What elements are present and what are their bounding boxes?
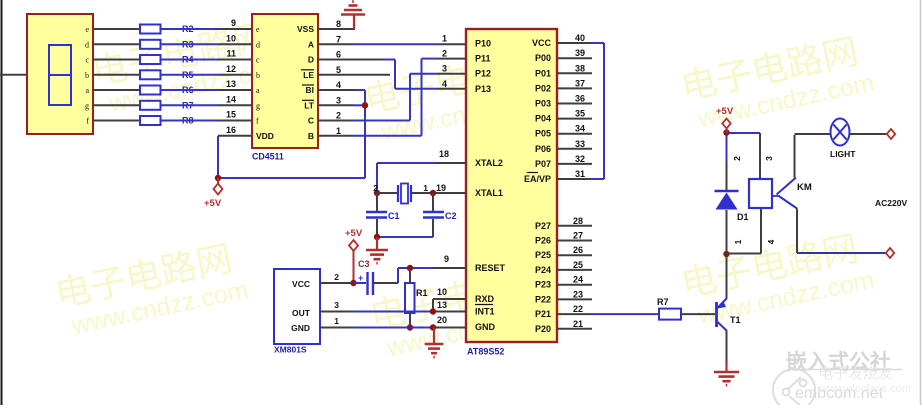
svg-text:P22: P22 [535, 294, 551, 304]
svg-text:16: 16 [226, 125, 236, 135]
wire R4 to CD4511 pin 11 [161, 59, 219, 61]
wire VDD down to +5V rail [217, 136, 219, 178]
wire collector up [726, 254, 728, 298]
net BI to +5V vertical [318, 89, 356, 91]
svg-text:P07: P07 [535, 159, 551, 169]
svg-text:D1: D1 [737, 212, 749, 222]
sheet left border [1, 0, 3, 405]
svg-text:BI: BI [306, 85, 315, 95]
ground (emitter) [725, 362, 727, 372]
svg-text:21: 21 [573, 319, 583, 329]
resistor R8 [140, 116, 161, 125]
wire C1 C2 common [377, 236, 433, 238]
svg-text:AC220V: AC220V [875, 198, 907, 208]
resistor R5 [140, 70, 161, 79]
svg-text:6: 6 [336, 50, 341, 60]
svg-text:VSS: VSS [297, 24, 314, 34]
svg-text:4: 4 [336, 80, 341, 90]
svg-text:XTAL2: XTAL2 [475, 158, 503, 168]
svg-text:11: 11 [226, 49, 236, 59]
svg-text:1: 1 [334, 316, 339, 326]
svg-text:40: 40 [575, 33, 585, 43]
capacitor C1 [376, 193, 378, 211]
svg-text:10: 10 [226, 33, 236, 43]
terminal AC high [887, 129, 895, 139]
svg-text:13: 13 [226, 79, 236, 89]
svg-text:+: + [358, 273, 363, 283]
svg-text:1: 1 [336, 126, 341, 136]
svg-text:e: e [256, 25, 260, 34]
junction +5V rail [215, 175, 221, 181]
svg-text:31: 31 [575, 169, 585, 179]
watermarks [88, 13, 287, 120]
svg-text:23: 23 [573, 289, 583, 299]
svg-text:P13: P13 [475, 84, 491, 94]
svg-text:4: 4 [442, 79, 447, 89]
svg-text:P27: P27 [535, 221, 551, 231]
svg-text:10: 10 [437, 287, 447, 297]
svg-text:电子发烧友: 电子发烧友 [818, 365, 893, 382]
net A to P10 [318, 43, 353, 45]
wire lamp branch [795, 133, 832, 135]
svg-text:34: 34 [575, 124, 585, 134]
svg-text:B: B [308, 131, 314, 141]
svg-text:32: 32 [575, 154, 585, 164]
svg-text:26: 26 [573, 245, 583, 255]
svg-text:GND: GND [475, 322, 496, 332]
wire D1 up to +5V node [726, 162, 728, 191]
svg-text:33: 33 [575, 139, 585, 149]
wire switch to AC terminal [796, 209, 798, 254]
svg-text:R7: R7 [657, 297, 669, 307]
svg-text:RESET: RESET [475, 263, 506, 273]
net LT to +5V vertical [318, 104, 353, 106]
svg-text:1: 1 [442, 34, 447, 44]
relay armature [772, 195, 780, 197]
wire R6 to CD4511 pin 13 [161, 89, 219, 91]
svg-text:+5V: +5V [716, 106, 734, 117]
wire VSS to ground [318, 28, 355, 30]
svg-text:P12: P12 [475, 69, 491, 79]
svg-text:b: b [85, 71, 89, 80]
wire R2 to CD4511 pin 9 [161, 28, 219, 30]
svg-text:VCC: VCC [292, 279, 310, 289]
svg-text:P11: P11 [475, 54, 491, 64]
svg-text:P23: P23 [535, 280, 551, 290]
svg-text:CD4511: CD4511 [252, 152, 284, 162]
svg-text:EA/VP: EA/VP [524, 174, 551, 184]
wire lamp to terminal [850, 133, 888, 135]
resistor R2 [140, 25, 161, 34]
wire XTAL1 [411, 192, 466, 194]
svg-text:OUT: OUT [292, 308, 311, 318]
svg-text:18: 18 [439, 149, 449, 159]
svg-text:a: a [85, 86, 89, 95]
svg-text:KM: KM [797, 182, 812, 193]
power +5V (CD4511) [217, 178, 219, 184]
7-segment display DS [27, 14, 93, 134]
wire R5 to CD4511 pin 12 [161, 74, 219, 76]
svg-text:g: g [256, 101, 260, 110]
diode D1 [726, 210, 728, 254]
lamp LIGHT [831, 119, 850, 146]
svg-text:3: 3 [764, 156, 774, 161]
resistor R4 [140, 55, 161, 64]
svg-text:2: 2 [442, 49, 447, 59]
svg-text:P05: P05 [535, 129, 551, 139]
svg-text:28: 28 [573, 216, 583, 226]
wire VCC to EA/VP bracket [590, 42, 604, 44]
junction GND [430, 324, 436, 330]
ground (MCU GND) [433, 328, 435, 345]
svg-text:39: 39 [575, 48, 585, 58]
resistor R1 [409, 268, 411, 283]
svg-text:2: 2 [336, 111, 341, 121]
svg-text:VDD: VDD [256, 131, 274, 141]
svg-text:C2: C2 [445, 211, 457, 221]
wire R8 to CD4511 pin 15 [161, 120, 219, 122]
wire R7 to base [681, 313, 715, 315]
svg-text:AT89S52: AT89S52 [467, 347, 504, 357]
svg-text:LT: LT [304, 100, 315, 110]
vertical +5V tie BI/LT [364, 90, 366, 178]
wire input stub to display [0, 74, 27, 76]
svg-text:P24: P24 [535, 265, 551, 275]
svg-text:1: 1 [733, 239, 743, 244]
svg-text:19: 19 [436, 183, 446, 193]
junction LT [362, 102, 368, 108]
svg-text:P04: P04 [535, 114, 551, 124]
svg-text:P25: P25 [535, 250, 551, 260]
net B to P11 [318, 135, 353, 137]
svg-text:b: b [256, 71, 260, 80]
svg-text:GND: GND [291, 323, 310, 333]
svg-text:C: C [308, 116, 314, 126]
svg-text:LE: LE [303, 70, 314, 80]
wire R3 to CD4511 pin 10 [161, 43, 219, 45]
svg-text:INT1: INT1 [475, 307, 495, 317]
relay RM coil [749, 179, 772, 208]
svg-text:P02: P02 [535, 83, 551, 93]
svg-text:15: 15 [226, 110, 236, 120]
MCU P2 pin stubs 28-21 [557, 225, 592, 227]
junction +5V/C3 [350, 280, 356, 286]
ground (crystal caps) [376, 237, 378, 250]
junction R1 top [407, 265, 413, 271]
svg-text:2: 2 [373, 183, 378, 193]
svg-text:3: 3 [334, 300, 339, 310]
svg-text:P26: P26 [535, 236, 551, 246]
svg-text:d: d [85, 40, 89, 49]
junction ground rail [374, 234, 380, 240]
svg-text:7: 7 [336, 34, 341, 44]
svg-text:13: 13 [437, 300, 447, 310]
svg-text:2: 2 [732, 156, 742, 161]
sheet right border [920, 0, 922, 405]
junction +5V node [723, 129, 729, 135]
+5V rail under CD4511 [218, 177, 365, 179]
junction collector / D1 / relay [723, 251, 729, 257]
svg-text:14: 14 [226, 94, 236, 104]
net D to P13 [318, 59, 384, 61]
resistor R3 [140, 40, 161, 49]
svg-text:P00: P00 [535, 53, 551, 63]
svg-text:P03: P03 [535, 99, 551, 109]
svg-text:3: 3 [336, 95, 341, 105]
svg-text:4: 4 [766, 239, 776, 244]
wire C3 up to RESET row [397, 268, 399, 283]
svg-text:37: 37 [575, 78, 585, 88]
svg-text:12: 12 [226, 64, 236, 74]
svg-text:8: 8 [336, 19, 341, 29]
svg-text:C3: C3 [358, 259, 370, 269]
svg-text:35: 35 [575, 109, 585, 119]
svg-text:1: 1 [423, 183, 428, 193]
svg-text:36: 36 [575, 94, 585, 104]
svg-text:25: 25 [573, 260, 583, 270]
svg-text:c: c [85, 56, 89, 65]
svg-text:www.elecfans.com: www.elecfans.com [819, 383, 911, 395]
resistor R6 [140, 86, 161, 95]
svg-text:RXD: RXD [475, 294, 495, 304]
wire display to resistors [93, 28, 140, 30]
svg-text:27: 27 [573, 231, 583, 241]
junction crystal right [430, 190, 436, 196]
svg-text:3: 3 [442, 64, 447, 74]
junction crystal left [374, 190, 380, 196]
svg-text:22: 22 [573, 304, 583, 314]
wire emitter down [726, 331, 728, 366]
svg-text:c: c [256, 56, 260, 65]
svg-text:e: e [85, 25, 89, 34]
svg-text:9: 9 [231, 18, 236, 28]
IC U3 XM801S [274, 269, 320, 344]
svg-text:R1: R1 [416, 288, 428, 298]
svg-text:a: a [256, 86, 260, 95]
svg-text:20: 20 [437, 315, 447, 325]
svg-text:A: A [308, 39, 314, 49]
svg-text:38: 38 [575, 63, 585, 73]
MCU right pin stubs 40-31 [557, 42, 592, 44]
svg-text:C1: C1 [388, 211, 400, 221]
resistor R7 [140, 101, 161, 110]
svg-text:T1: T1 [730, 315, 741, 325]
wire R7 to CD4511 pin 14 [161, 104, 219, 106]
wire LE stub [318, 74, 390, 76]
svg-text:5: 5 [336, 65, 341, 75]
terminal AC low [886, 248, 894, 258]
svg-text:9: 9 [444, 254, 449, 264]
wire P21 to R7 [592, 313, 659, 315]
junction R1 bottom [407, 324, 413, 330]
svg-text:+5V: +5V [345, 228, 363, 239]
svg-text:D: D [308, 55, 314, 65]
svg-text:P01: P01 [535, 68, 551, 78]
svg-text:XM801S: XM801S [274, 345, 307, 355]
svg-text:P06: P06 [535, 144, 551, 154]
IC U1 AT89S52 [466, 29, 557, 342]
net C to P12 [318, 120, 353, 122]
transistor T1 [715, 302, 718, 327]
svg-text:g: g [85, 101, 89, 110]
wire VDD pin 16 [218, 135, 252, 137]
svg-text:2: 2 [334, 272, 339, 282]
svg-text:LIGHT: LIGHT [830, 149, 856, 159]
svg-text:d: d [256, 40, 260, 49]
svg-text:VCC: VCC [532, 38, 552, 48]
svg-text:f: f [86, 117, 89, 126]
capacitor C2 [432, 193, 434, 211]
wire +5V rail to coil [727, 132, 761, 134]
IC U2 CD4511 [252, 14, 318, 148]
wire relay bottom rail [727, 253, 762, 255]
svg-text:24: 24 [573, 275, 583, 285]
svg-text:f: f [256, 117, 259, 126]
svg-text:P20: P20 [535, 324, 551, 334]
ground (CD4511 VSS) [353, 15, 355, 29]
svg-text:P21: P21 [535, 309, 551, 319]
svg-text:XTAL1: XTAL1 [475, 188, 503, 198]
svg-text:P10: P10 [475, 39, 491, 49]
svg-text:+5V: +5V [204, 198, 222, 209]
junction RXD/INT1 [430, 308, 436, 314]
